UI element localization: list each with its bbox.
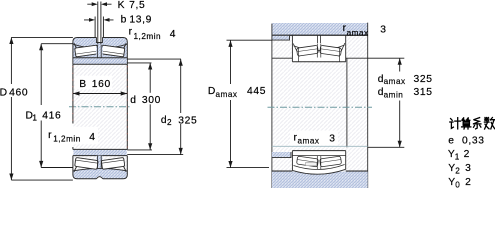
svg-text:amax: amax bbox=[347, 28, 369, 37]
roller left bottom bbox=[75, 157, 99, 169]
outer ring bottom section (blue) bbox=[73, 168, 127, 179]
center flange wedge bottom bbox=[96, 156, 103, 168]
svg-text:1,2min: 1,2min bbox=[134, 32, 162, 41]
arrowheads left drawing bbox=[9, 2, 183, 180]
svg-text:160: 160 bbox=[92, 79, 111, 90]
svg-text:amax: amax bbox=[216, 90, 238, 99]
ext line D top bbox=[11, 36, 73, 38]
d2 top arrow bbox=[179, 59, 183, 66]
d top arrow bbox=[148, 63, 152, 70]
groove notch bottom bbox=[96, 177, 102, 179]
svg-text:3: 3 bbox=[380, 25, 386, 36]
roller right top bbox=[101, 45, 125, 57]
shoulder ring bottom (blue) bbox=[272, 152, 291, 158]
b dim arrows lines bbox=[84, 19, 114, 21]
b right arrow bbox=[104, 18, 110, 22]
raceway arc bottom section bbox=[294, 165, 345, 170]
housing shoulder top (blue) bbox=[272, 36, 290, 40]
svg-text:r: r bbox=[48, 130, 52, 141]
d2 bottom arrow bbox=[179, 148, 183, 155]
shaft shoulder face vertical bbox=[346, 58, 348, 147]
centerline axis right bbox=[268, 106, 373, 108]
d bottom arrow bbox=[148, 143, 152, 150]
svg-text:amax: amax bbox=[298, 137, 320, 146]
D bottom arrow bbox=[9, 174, 13, 181]
ext line D1 bottom bbox=[41, 167, 73, 169]
svg-text:D: D bbox=[0, 87, 7, 98]
svg-text:amax: amax bbox=[384, 77, 406, 86]
top section outline bbox=[73, 38, 127, 65]
D1 bottom arrow bbox=[39, 161, 43, 168]
K dim arrows lines bbox=[87, 3, 111, 5]
seal left bottom bbox=[74, 159, 81, 172]
ext line D1 top bbox=[41, 43, 73, 45]
damin down arrow bbox=[398, 141, 402, 148]
svg-text:0,33: 0,33 bbox=[462, 136, 485, 147]
ext d2 bottom bbox=[127, 154, 183, 156]
center guide flange lines bottom bbox=[98, 156, 102, 168]
factor table values bbox=[448, 136, 485, 190]
dim D1 vertical line bbox=[40, 44, 42, 168]
char 数 (partially cut at right edge) bbox=[484, 118, 495, 130]
svg-text:416: 416 bbox=[42, 110, 61, 121]
svg-text:e: e bbox=[448, 136, 454, 147]
center guide flange top bbox=[98, 45, 102, 58]
inner ring bore line bottom section bbox=[292, 155, 345, 157]
housing bore line bbox=[272, 34, 368, 36]
ext line D bottom bbox=[11, 179, 73, 181]
outer raceway arc bbox=[294, 45, 345, 51]
header 计算系数 drawn as strokes bbox=[450, 118, 495, 130]
svg-text:3: 3 bbox=[465, 163, 471, 174]
svg-text:4: 4 bbox=[89, 132, 95, 143]
groove notch top bbox=[97, 38, 103, 43]
damax/damin vertical line bbox=[399, 58, 401, 147]
Damax ext top bbox=[227, 39, 272, 41]
char 算 bbox=[462, 118, 471, 129]
svg-text:B: B bbox=[79, 79, 86, 90]
K left arrow bbox=[92, 2, 98, 6]
svg-text:2: 2 bbox=[464, 149, 470, 160]
seal right bottom bbox=[120, 159, 126, 172]
lubrication hole lines top bbox=[98, 38, 101, 45]
B left arrow bbox=[73, 91, 80, 95]
svg-text:325: 325 bbox=[178, 115, 197, 126]
roller left (right drawing top) bbox=[297, 45, 319, 56]
outer ring top section (blue) bbox=[73, 38, 127, 65]
b groove lines up bbox=[95, 17, 103, 38]
Damax vertical line bbox=[230, 40, 232, 167]
red abutment dots left rect edges bbox=[72, 66, 74, 122]
center guide flange (right drawing top) bbox=[317, 44, 321, 58]
D top arrow bbox=[9, 37, 13, 44]
svg-text:2: 2 bbox=[465, 177, 471, 188]
outer raceway arc bottom bbox=[73, 168, 126, 170]
svg-text:3: 3 bbox=[329, 134, 335, 145]
shaft band bottom (blue) bbox=[272, 172, 368, 188]
D1 top arrow bbox=[39, 44, 43, 51]
white text boxes left bbox=[44, 76, 164, 145]
svg-text:d: d bbox=[161, 115, 167, 126]
roller right bottom bbox=[101, 157, 125, 169]
faint section hatch left drawing region bbox=[73, 38, 126, 179]
roller right bottom (right drawing) bbox=[320, 156, 342, 167]
ext d bottom bbox=[127, 149, 152, 151]
housing/shaft left edge bbox=[271, 24, 273, 188]
left rect side walls bbox=[72, 64, 74, 123]
damax ext line bbox=[368, 57, 405, 59]
seal right top bbox=[120, 43, 126, 56]
damin ext line bbox=[368, 146, 405, 148]
inner ring faces (right drawing top) bbox=[299, 48, 340, 62]
shaft shoulder lines top bbox=[272, 57, 368, 59]
ext d top bbox=[127, 62, 151, 64]
b left arrow bbox=[89, 18, 95, 22]
dim D vertical line bbox=[10, 37, 12, 180]
roller left top bbox=[75, 45, 99, 57]
ext d2 top bbox=[127, 58, 181, 60]
svg-text:1: 1 bbox=[32, 114, 37, 123]
housing bore line bottom bbox=[272, 170, 368, 172]
bottom section: inner ring band bbox=[73, 149, 126, 155]
dim d vertical bbox=[149, 63, 151, 150]
svg-text:315: 315 bbox=[414, 87, 433, 98]
svg-text:1: 1 bbox=[455, 153, 460, 162]
bearing bottom section (right drawing) bbox=[292, 151, 345, 175]
white text boxes right bbox=[206, 85, 338, 146]
svg-text:amin: amin bbox=[384, 91, 404, 100]
svg-text:D: D bbox=[208, 86, 215, 97]
inner ring band top bbox=[73, 58, 126, 65]
svg-text:445: 445 bbox=[247, 86, 266, 97]
dim B line bbox=[73, 93, 127, 95]
cage mark bottom bbox=[306, 163, 317, 166]
svg-text:300: 300 bbox=[142, 95, 161, 106]
faint section hatch right drawing region bbox=[272, 35, 367, 171]
svg-text:1,2min: 1,2min bbox=[53, 135, 81, 144]
char 计 bbox=[450, 118, 461, 129]
center flange wedge top bbox=[96, 47, 103, 58]
svg-text:d: d bbox=[130, 95, 136, 106]
bearing top section (right drawing) bbox=[292, 35, 345, 61]
svg-text:460: 460 bbox=[9, 87, 28, 98]
K right arrow bbox=[101, 2, 107, 6]
svg-text:325: 325 bbox=[414, 74, 433, 85]
left drawing texts bbox=[0, 0, 197, 144]
svg-text:4: 4 bbox=[170, 29, 176, 40]
svg-text:13,9: 13,9 bbox=[129, 14, 152, 25]
svg-text:b: b bbox=[121, 14, 127, 25]
outer OD arc bottom bbox=[292, 169, 345, 174]
centerline axis left bbox=[69, 106, 132, 108]
K groove lines up bbox=[98, 2, 101, 38]
B right arrow bbox=[121, 91, 128, 95]
Damax ext bottom bbox=[227, 167, 270, 169]
Damax bottom arrow bbox=[228, 161, 232, 168]
damax up arrow bbox=[398, 58, 402, 65]
svg-text:2: 2 bbox=[167, 118, 172, 127]
svg-text:7,5: 7,5 bbox=[129, 0, 145, 11]
seal left top bbox=[74, 43, 81, 56]
seal right bbox=[339, 43, 345, 57]
svg-text:0: 0 bbox=[455, 180, 460, 189]
seal left bbox=[293, 44, 299, 57]
roller right (right drawing top) bbox=[320, 45, 342, 56]
housing band top (blue) bbox=[272, 23, 368, 35]
housing/shaft right edge bbox=[367, 23, 369, 188]
roller left bottom (right drawing) bbox=[297, 156, 319, 167]
right drawing texts bbox=[208, 23, 433, 146]
dim d2 vertical bbox=[180, 59, 182, 154]
outer raceway arc top (dips to center) bbox=[73, 44, 126, 48]
Damax top arrow bbox=[228, 40, 232, 47]
svg-text:2: 2 bbox=[455, 166, 460, 175]
svg-text:K: K bbox=[118, 0, 125, 11]
char 系 bbox=[474, 118, 481, 129]
shaft seat line bottom (teal) bbox=[272, 145, 368, 147]
lubrication hole right drawing bbox=[318, 35, 321, 43]
center guide flange (right drawing bottom) bbox=[317, 156, 321, 169]
svg-text:r: r bbox=[129, 27, 133, 38]
